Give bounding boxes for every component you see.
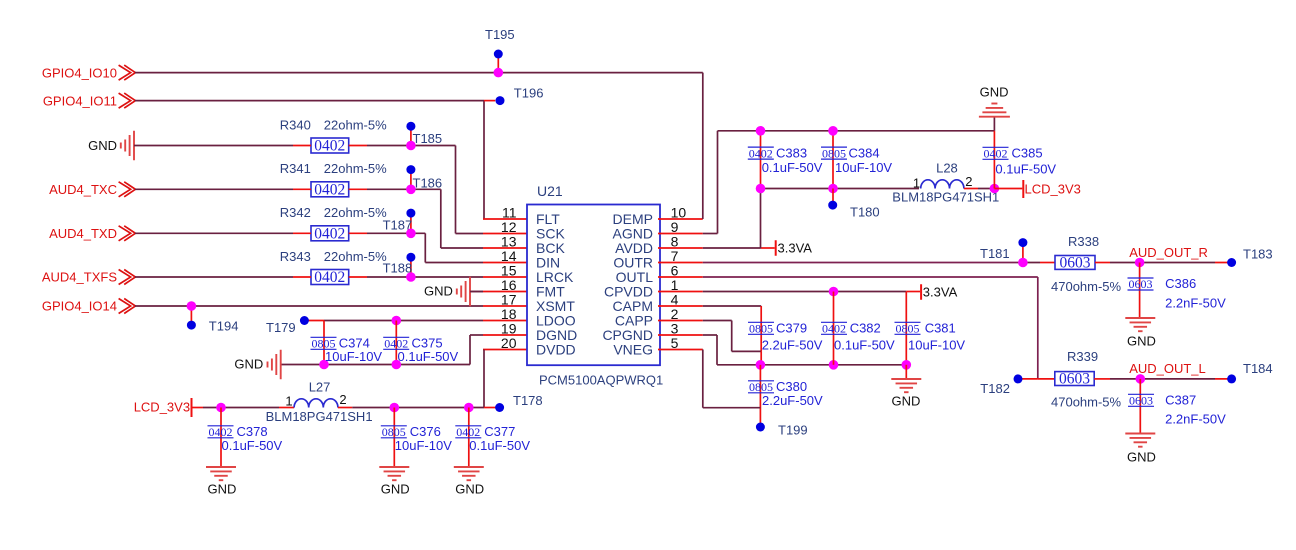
svg-text:C381: C381: [925, 321, 956, 336]
svg-text:GND: GND: [892, 394, 921, 409]
svg-text:AUD4_TXFS: AUD4_TXFS: [42, 270, 117, 285]
svg-text:T185: T185: [413, 131, 443, 146]
svg-text:C377: C377: [484, 424, 515, 439]
svg-text:GND: GND: [88, 138, 117, 153]
svg-text:R343: R343: [280, 249, 311, 264]
svg-text:0.1uF-50V: 0.1uF-50V: [995, 162, 1056, 177]
svg-text:C384: C384: [849, 145, 880, 160]
svg-text:0603: 0603: [1129, 394, 1153, 408]
svg-text:0402: 0402: [314, 225, 345, 242]
svg-text:T194: T194: [209, 319, 239, 334]
svg-text:T182: T182: [980, 381, 1010, 396]
svg-text:T179: T179: [266, 320, 296, 335]
svg-text:2.2uF-50V: 2.2uF-50V: [762, 393, 823, 408]
svg-text:AUD_OUT_R: AUD_OUT_R: [1129, 245, 1208, 260]
svg-text:0.1uF-50V: 0.1uF-50V: [222, 438, 283, 453]
svg-text:T178: T178: [513, 393, 543, 408]
svg-text:0.1uF-50V: 0.1uF-50V: [398, 349, 459, 364]
svg-text:1: 1: [285, 394, 292, 409]
svg-text:T186: T186: [413, 175, 443, 190]
svg-text:VNEG: VNEG: [613, 342, 653, 358]
svg-text:GPIO4_IO14: GPIO4_IO14: [42, 299, 117, 314]
svg-text:GND: GND: [208, 482, 237, 497]
svg-text:5: 5: [671, 335, 679, 351]
svg-text:C376: C376: [410, 424, 441, 439]
svg-text:10uF-10V: 10uF-10V: [395, 438, 452, 453]
svg-text:0603: 0603: [1060, 255, 1091, 272]
svg-text:0603: 0603: [1059, 371, 1090, 388]
svg-text:T195: T195: [485, 27, 515, 42]
svg-text:GND: GND: [1127, 334, 1156, 349]
svg-text:22ohm-5%: 22ohm-5%: [324, 249, 387, 264]
svg-text:22ohm-5%: 22ohm-5%: [324, 117, 387, 132]
svg-text:T188: T188: [383, 261, 413, 276]
svg-text:R339: R339: [1067, 349, 1098, 364]
svg-text:0.1uF-50V: 0.1uF-50V: [762, 160, 823, 175]
svg-text:0402: 0402: [314, 269, 345, 286]
svg-text:U21: U21: [537, 183, 563, 199]
svg-text:GND: GND: [381, 482, 410, 497]
svg-text:0402: 0402: [984, 147, 1008, 161]
svg-text:T196: T196: [514, 85, 544, 100]
svg-text:0.1uF-50V: 0.1uF-50V: [834, 338, 895, 353]
svg-text:L28: L28: [936, 161, 958, 176]
svg-text:3.3VA: 3.3VA: [778, 240, 813, 255]
svg-text:C387: C387: [1165, 393, 1196, 408]
svg-text:470ohm-5%: 470ohm-5%: [1051, 279, 1122, 294]
svg-text:C383: C383: [776, 145, 807, 160]
svg-text:T184: T184: [1243, 361, 1273, 376]
svg-text:0805: 0805: [749, 322, 773, 336]
svg-text:C386: C386: [1165, 276, 1196, 291]
svg-text:22ohm-5%: 22ohm-5%: [324, 205, 387, 220]
svg-text:T180: T180: [850, 205, 880, 220]
svg-text:22ohm-5%: 22ohm-5%: [324, 161, 387, 176]
svg-text:0402: 0402: [749, 146, 773, 160]
svg-text:20: 20: [501, 335, 517, 351]
svg-text:0805: 0805: [896, 322, 920, 336]
svg-text:10uF-10V: 10uF-10V: [325, 349, 382, 364]
svg-text:BLM18PG471SH1: BLM18PG471SH1: [892, 190, 999, 205]
svg-text:2.2uF-50V: 2.2uF-50V: [762, 338, 823, 353]
svg-text:2: 2: [965, 174, 972, 189]
svg-text:AUD4_TXD: AUD4_TXD: [49, 226, 117, 241]
svg-text:R341: R341: [280, 161, 311, 176]
svg-text:T199: T199: [778, 422, 808, 437]
svg-text:3.3VA: 3.3VA: [923, 284, 958, 299]
svg-text:R338: R338: [1068, 234, 1099, 249]
svg-text:10uF-10V: 10uF-10V: [908, 338, 965, 353]
svg-text:C379: C379: [776, 321, 807, 336]
svg-text:C382: C382: [850, 321, 881, 336]
svg-text:GPIO4_IO11: GPIO4_IO11: [43, 93, 117, 108]
svg-text:0805: 0805: [749, 380, 773, 394]
svg-text:GND: GND: [980, 85, 1009, 100]
svg-text:1: 1: [913, 176, 920, 191]
svg-text:2.2nF-50V: 2.2nF-50V: [1165, 412, 1226, 427]
svg-text:GPIO4_IO10: GPIO4_IO10: [42, 65, 117, 80]
svg-text:AUD_OUT_L: AUD_OUT_L: [1129, 361, 1206, 376]
svg-text:BLM18PG471SH1: BLM18PG471SH1: [266, 409, 373, 424]
svg-text:T181: T181: [980, 246, 1010, 261]
svg-text:470ohm-5%: 470ohm-5%: [1051, 395, 1122, 410]
svg-text:GND: GND: [424, 284, 453, 299]
svg-text:2: 2: [339, 392, 346, 407]
svg-text:DVDD: DVDD: [536, 342, 576, 358]
svg-text:GND: GND: [1127, 450, 1156, 465]
svg-text:10uF-10V: 10uF-10V: [835, 160, 892, 175]
svg-text:2.2nF-50V: 2.2nF-50V: [1165, 296, 1226, 311]
svg-text:C380: C380: [776, 379, 807, 394]
svg-text:0402: 0402: [822, 322, 846, 336]
svg-text:GND: GND: [234, 357, 263, 372]
svg-text:LCD_3V3: LCD_3V3: [134, 399, 190, 414]
svg-text:0402: 0402: [314, 181, 345, 198]
svg-text:PCM5100AQPWRQ1: PCM5100AQPWRQ1: [539, 373, 663, 388]
svg-text:AUD4_TXC: AUD4_TXC: [49, 182, 117, 197]
svg-text:T187: T187: [383, 218, 413, 233]
svg-text:0.1uF-50V: 0.1uF-50V: [469, 438, 530, 453]
svg-text:C385: C385: [1012, 146, 1043, 161]
svg-text:0603: 0603: [1129, 277, 1153, 291]
svg-text:R340: R340: [280, 117, 311, 132]
svg-text:L27: L27: [309, 380, 331, 395]
svg-text:LCD_3V3: LCD_3V3: [1025, 182, 1081, 197]
svg-text:0402: 0402: [314, 138, 345, 155]
svg-text:0805: 0805: [822, 146, 846, 160]
svg-text:C378: C378: [237, 424, 268, 439]
svg-text:GND: GND: [455, 482, 484, 497]
svg-text:R342: R342: [280, 205, 311, 220]
svg-text:T183: T183: [1243, 247, 1273, 262]
